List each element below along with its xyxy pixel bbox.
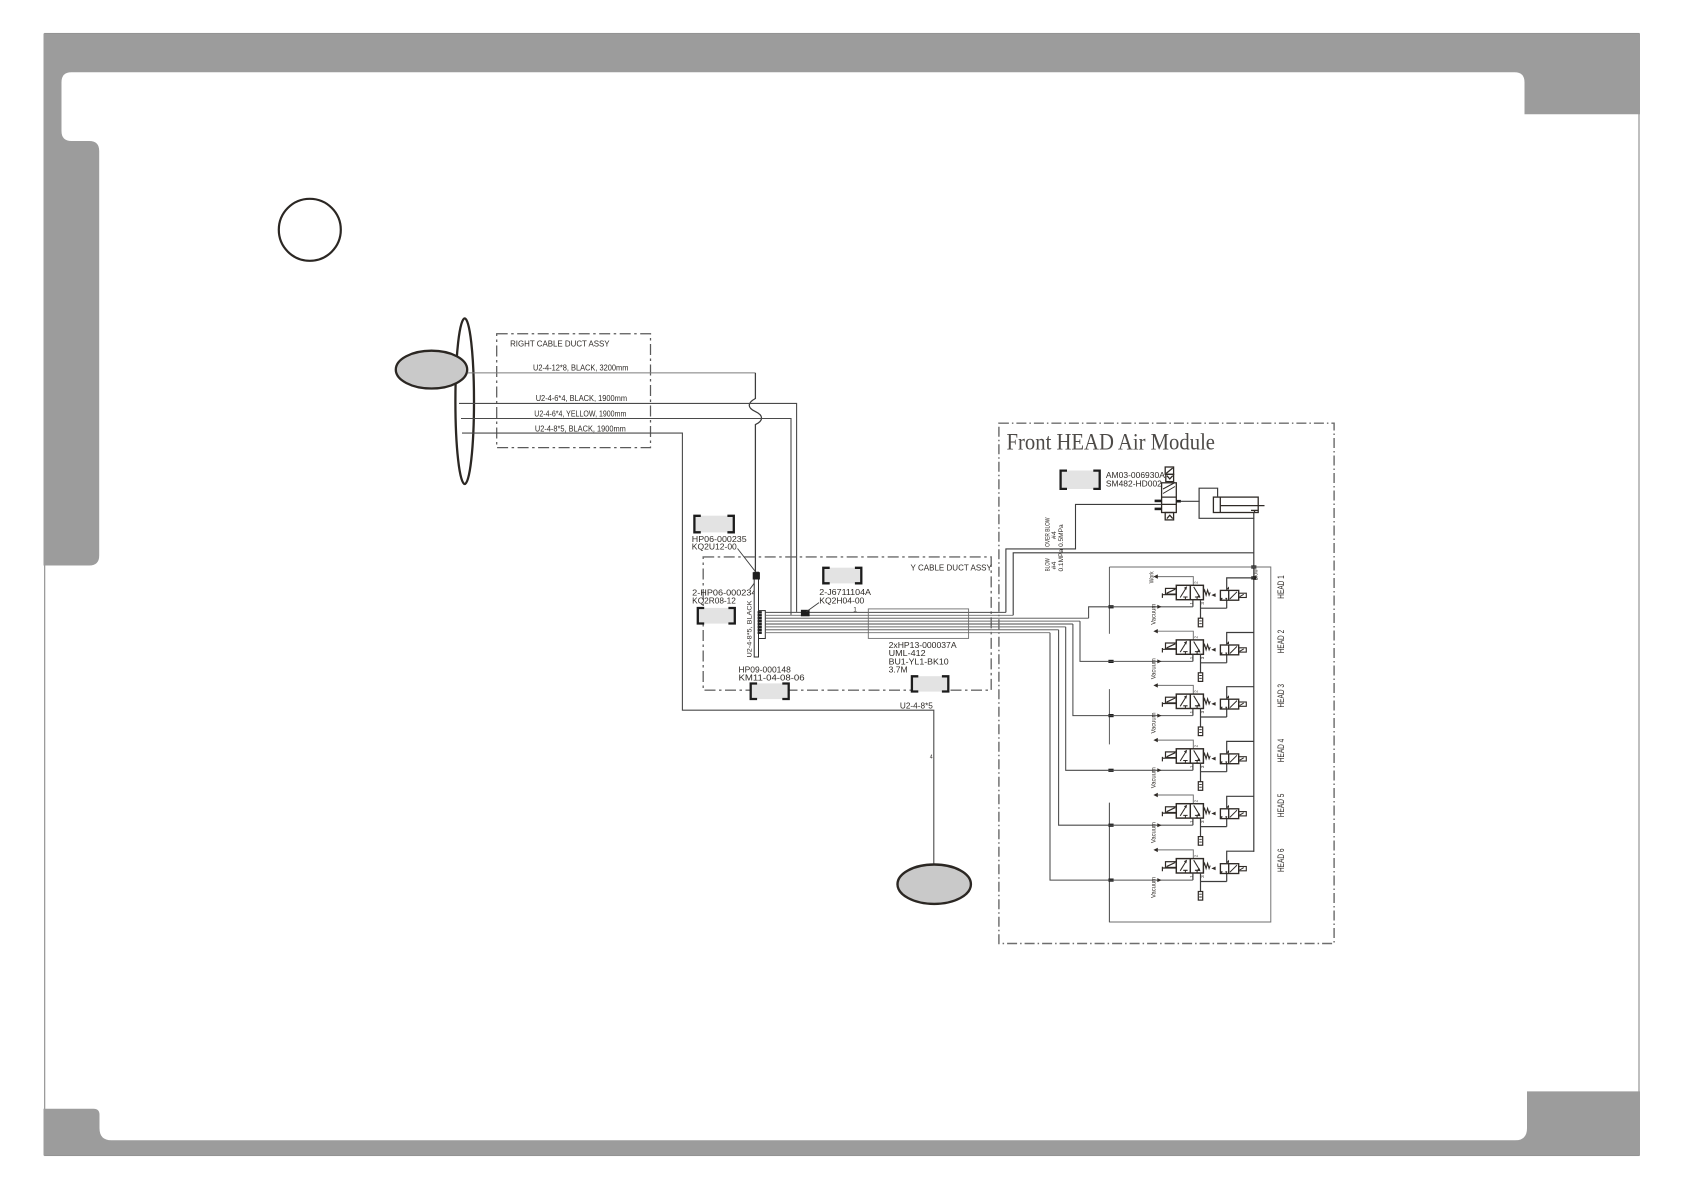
svg-text:HEAD 4: HEAD 4 — [1276, 739, 1286, 763]
wire U2-4-6*4 black — [459, 403, 797, 612]
blow tube — [765, 614, 1013, 616]
vacuum tube head 2 — [765, 620, 1080, 622]
svg-text:Front HEAD Air Module: Front HEAD Air Module — [1007, 430, 1216, 455]
valve assembly HEAD 3 — [1108, 683, 1253, 735]
leader to strip — [750, 581, 756, 589]
vacuum tube head 3 — [765, 623, 1073, 625]
vacuum riser head 1 — [1089, 607, 1114, 618]
svg-text:U2-4-8*5, BLACK, 1900mm: U2-4-8*5, BLACK, 1900mm — [535, 424, 626, 433]
blow bus tick head1 — [1251, 576, 1256, 579]
Y CABLE DUCT ASSY box — [703, 557, 991, 690]
wire U2-4-8*5 long run to lower grommet — [462, 433, 934, 864]
vacuum riser head 3 — [1073, 624, 1114, 716]
RIGHT CABLE DUCT ASSY box — [497, 334, 651, 448]
valve assembly HEAD 4 — [1108, 738, 1253, 790]
over-blow tube — [765, 611, 1006, 613]
svg-text:3.7M: 3.7M — [889, 666, 908, 675]
vacuum riser head 5 — [1059, 630, 1114, 825]
photo box HP06-000235 — [694, 516, 733, 533]
svg-text:HEAD 2: HEAD 2 — [1276, 630, 1286, 654]
gray frame: bottom band — [44, 1091, 1641, 1155]
KQ2H04 connector block — [801, 610, 810, 617]
svg-text:1: 1 — [853, 606, 857, 613]
svg-text:Work: Work — [1149, 571, 1156, 584]
leader to connector — [806, 603, 819, 612]
leader to strip top — [738, 549, 755, 571]
OVER BLOW supply line — [1006, 504, 1162, 612]
cable duct stadium — [455, 318, 474, 484]
Front HEAD Air Module dashed box — [999, 423, 1334, 943]
vacuum riser head 2 — [1080, 621, 1114, 661]
piping top assembly — [1181, 488, 1254, 518]
svg-text:KM11-04-08-06: KM11-04-08-06 — [739, 674, 806, 683]
svg-text:KQ2U12-00: KQ2U12-00 — [692, 543, 738, 552]
blow bus vertical — [1253, 518, 1255, 852]
svg-text:HEAD 1: HEAD 1 — [1276, 575, 1286, 599]
vacuum tube head 1 — [765, 617, 1088, 619]
tube bundle — [765, 612, 1088, 632]
svg-text:0.5MPa: 0.5MPa — [1058, 524, 1065, 547]
valve assembly HEAD 2 — [1108, 629, 1253, 681]
gray frame: top band + left column — [44, 34, 1641, 566]
heads inner frame — [1109, 567, 1270, 922]
svg-text:KQ2R08-12: KQ2R08-12 — [692, 597, 736, 606]
grommet ellipse — [396, 351, 467, 389]
photo box KM11 — [751, 683, 789, 699]
vacuum riser head 6 — [1050, 633, 1114, 880]
valve assembly HEAD 5 — [1108, 793, 1253, 845]
vacuum tube head 5 — [765, 629, 1058, 631]
manifold comb — [758, 611, 766, 639]
photo box UML tube — [912, 676, 948, 691]
svg-text:U2-4-12*8, BLACK, 3200mm: U2-4-12*8, BLACK, 3200mm — [533, 364, 629, 373]
svg-text:U2-4-8*5, BLACK: U2-4-8*5, BLACK — [746, 600, 753, 658]
svg-text:U2-4-6*4, YELLOW, 1900mm: U2-4-6*4, YELLOW, 1900mm — [534, 409, 626, 418]
UML-412 sleeve box — [868, 609, 968, 639]
valve assembly HEAD 1 — [1108, 574, 1253, 626]
photo box KQ2R08-12 — [698, 608, 735, 624]
svg-text:U2-4-8*5: U2-4-8*5 — [900, 702, 934, 711]
lower grommet ellipse — [898, 865, 971, 904]
regulator valve stack — [1162, 467, 1177, 520]
svg-text:HEAD 3: HEAD 3 — [1276, 684, 1286, 708]
svg-text:0.1MPa: 0.1MPa — [1058, 548, 1065, 571]
vacuum tube head 4 — [765, 626, 1065, 628]
wire U2-4-6*4 yellow — [461, 419, 791, 615]
vacuum tube head 6 — [765, 632, 1050, 634]
blow bus tick at frame top — [1251, 565, 1256, 568]
svg-text:U2-4-6*4, BLACK, 1900mm: U2-4-6*4, BLACK, 1900mm — [536, 394, 628, 403]
regulator port stubs — [1155, 500, 1181, 511]
svg-text:4: 4 — [930, 754, 933, 760]
svg-text:KQ2H04-00: KQ2H04-00 — [819, 596, 865, 605]
svg-text:AM03-006930A: AM03-006930A — [1106, 471, 1166, 480]
photo box J6711104A — [823, 568, 861, 584]
index circle — [279, 199, 341, 261]
BLOW supply line — [1013, 553, 1254, 616]
svg-text:HEAD 6: HEAD 6 — [1276, 849, 1286, 873]
valve assembly HEAD 6 — [1108, 848, 1253, 900]
wire U2-4-12*8 (horizontal+down with break squiggle) — [468, 373, 762, 572]
vacuum riser head 4 — [1066, 627, 1114, 770]
connector strip — [753, 572, 760, 657]
svg-text:RIGHT CABLE DUCT ASSY: RIGHT CABLE DUCT ASSY — [510, 340, 610, 349]
svg-text:Y CABLE DUCT ASSY: Y CABLE DUCT ASSY — [911, 563, 993, 572]
cylinder — [1213, 497, 1264, 512]
vacuum bus segments — [1108, 567, 1110, 922]
svg-text:HEAD 5: HEAD 5 — [1276, 794, 1286, 818]
svg-text:SM482-HD002: SM482-HD002 — [1106, 480, 1163, 489]
photo box AM03 — [1061, 471, 1100, 490]
